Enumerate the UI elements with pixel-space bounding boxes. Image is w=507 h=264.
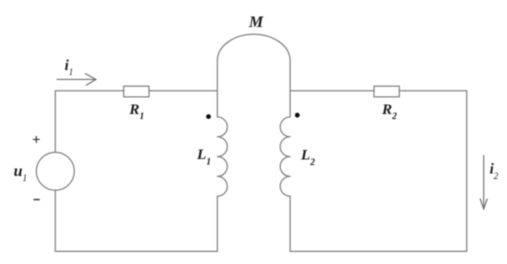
current arrow i2 [483, 156, 485, 209]
wire node to L2 top [289, 91, 291, 117]
resistor R2 [374, 86, 399, 97]
svg-text:L1: L1 [196, 146, 211, 168]
svg-text:i1: i1 [65, 58, 74, 77]
wire R1 to node, down to L1 top [149, 91, 217, 117]
inductor L2 [280, 117, 290, 196]
wire R2 to right, down, loop2 bottom, up to L2 bottom [290, 91, 467, 252]
svg-text:u1: u1 [14, 163, 27, 183]
svg-text:M: M [248, 14, 264, 31]
minus sign of source [34, 199, 40, 201]
wire node to R2 [290, 90, 374, 92]
wire left-bottom and loop1 bottom [55, 190, 217, 251]
svg-text:L2: L2 [300, 147, 315, 168]
plus sign of source [33, 136, 40, 143]
voltage source u1 [36, 152, 74, 190]
svg-text:R1: R1 [128, 101, 144, 122]
dot mark of L2 [295, 113, 300, 118]
mutual inductance arc M [217, 34, 290, 91]
svg-text:R2: R2 [381, 101, 397, 122]
dot mark of L1 [206, 114, 211, 119]
resistor R1 [124, 86, 149, 97]
wire top-left: source to R1 [55, 91, 123, 153]
inductor L1 [217, 117, 227, 196]
svg-text:i2: i2 [490, 162, 499, 181]
current arrow i1 [57, 78, 96, 80]
